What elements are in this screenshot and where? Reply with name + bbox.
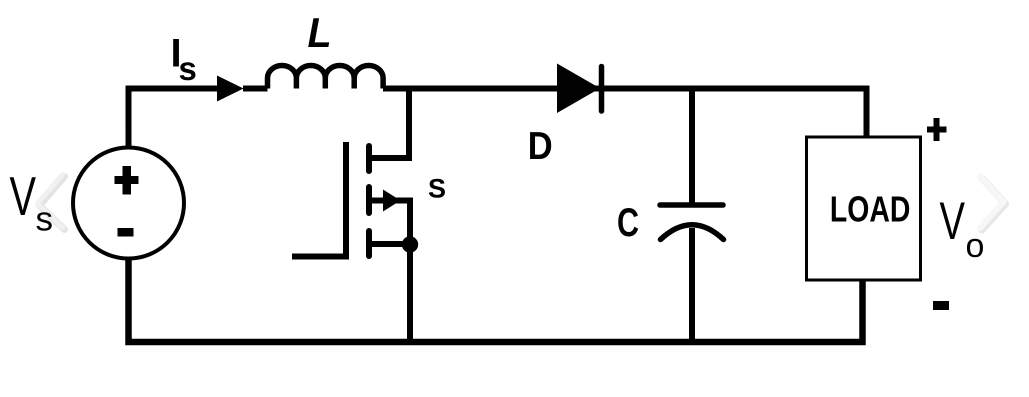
svg-text:LOAD: LOAD: [830, 189, 911, 230]
svg-text:s: s: [36, 201, 54, 239]
svg-text:s: s: [179, 50, 197, 87]
svg-text:V: V: [940, 192, 966, 251]
svg-text:V: V: [10, 165, 37, 227]
svg-text:D: D: [528, 125, 553, 168]
svg-text:o: o: [966, 227, 985, 265]
svg-text:C: C: [617, 201, 639, 245]
svg-text:L: L: [308, 9, 332, 56]
svg-text:S: S: [428, 174, 446, 204]
